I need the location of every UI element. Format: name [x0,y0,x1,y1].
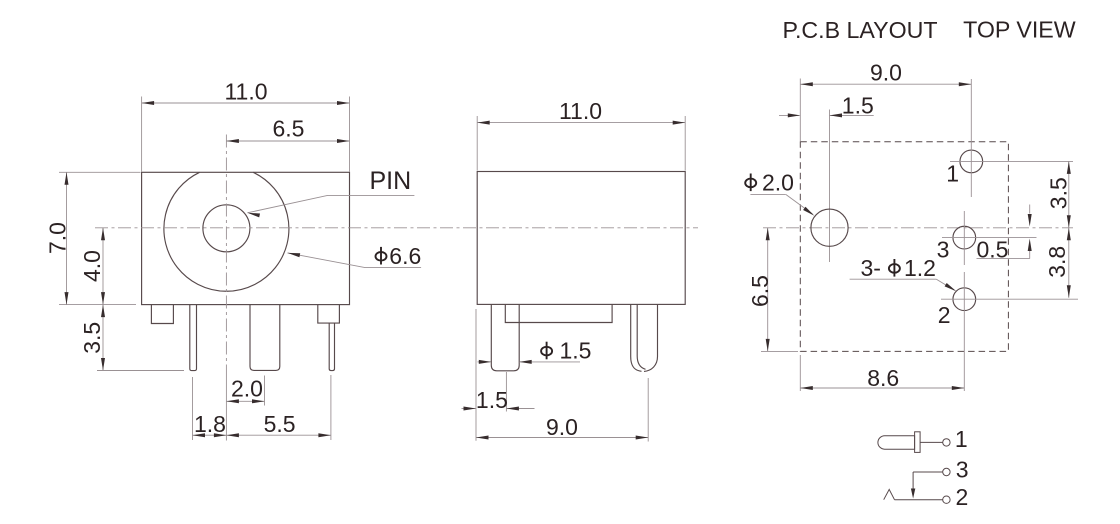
svg-text:1.5: 1.5 [842,93,874,119]
svg-text:3.5: 3.5 [1046,177,1072,209]
front dim 5.5 arrows [226,433,239,437]
svg-text:1.5: 1.5 [476,387,508,413]
pcb board dashed outline [800,142,1008,352]
pcb dim 3.5 arrows [1067,161,1071,174]
side view rear pin outer [631,304,642,371]
pcb dim 9.0 line [800,83,971,85]
front view left mounting tab [151,305,173,324]
pcb dim 3.8 arrows [1067,228,1071,241]
pcb pin1 hole [960,150,983,173]
front view body outline [142,172,350,304]
front view vertical centerline [225,135,227,378]
svg-text:7.0: 7.0 [44,222,70,254]
front dim 1.8 arrows [193,433,206,437]
svg-text:2.0: 2.0 [231,376,263,402]
pcb pin1 crosshair [950,160,1073,162]
svg-text:3.8: 3.8 [1044,246,1070,278]
svg-text:1.2: 1.2 [904,255,936,281]
pcb dim 6.5 line [767,228,769,352]
front dim 2.0 arrows [226,399,239,403]
pcb phi2.0 label symbol [745,179,756,188]
svg-text:2: 2 [938,302,951,328]
schematic wire pin1 [920,441,943,443]
front dim 1.8 5.5 line [193,434,331,436]
svg-text:6.5: 6.5 [747,275,773,307]
pcb dim 9.0 extension line [799,79,801,142]
side view base step [505,304,612,322]
svg-text:2.0: 2.0 [762,169,794,195]
front view center pin circle [203,205,250,252]
pcb hole phi2.0 circle [811,209,848,246]
front view left thin pin [190,305,197,371]
svg-text:P.C.B LAYOUT: P.C.B LAYOUT [783,17,938,43]
pcb pin3 crosshair [942,237,1037,239]
front view right thin pin [329,323,334,371]
svg-text:6.6: 6.6 [389,243,421,269]
side dim 9.0 extension line [647,378,649,442]
schematic terminal circle 3 [943,468,950,475]
side view front pin phi1.5 [491,304,519,370]
front dim 3.5 line [102,305,104,371]
schematic terminal circle 1 [943,439,950,446]
front dim 7.0 extension lines [59,171,141,173]
svg-text:5.5: 5.5 [264,411,296,437]
front view right mounting tab [318,305,340,324]
svg-text:1: 1 [946,161,959,187]
pcb dim 1.5 line and arrows [779,114,800,116]
pcb dim 9.0 arrows [800,82,813,86]
pcb pin2 crosshair [941,298,1078,300]
front dim 11.0 arrows [142,101,155,105]
svg-text:3: 3 [937,237,950,263]
front dim 3.5 bottom extension line [97,370,184,372]
front dim 7.0 line [66,172,68,304]
front dim 11.0 extension lines [141,97,143,172]
pcb pin3 hole [953,226,976,249]
side phi1.5 arrows and leader [478,361,491,363]
front dim 1.8 5.5 extension lines [192,377,194,440]
svg-text:9.0: 9.0 [870,60,902,86]
pcb dim 8.6 arrows [800,386,813,390]
pcb dim 3.5 3.8 line [1068,161,1070,297]
schematic wire pin2 with spring contact [895,499,943,501]
side dim 11.0 extension lines [476,116,478,171]
svg-text:3: 3 [956,456,969,482]
svg-text:1.5: 1.5 [560,338,592,364]
front dim 2.0 extension lines [225,377,227,441]
svg-text:TOP VIEW: TOP VIEW [963,17,1076,43]
pcb dim 6.5 bottom extension line [761,350,798,352]
side dim 1.5 line and arrows [462,408,476,410]
svg-text:PIN: PIN [370,167,412,195]
svg-text:3-: 3- [861,255,881,281]
side dim 1.5 extension lines [475,309,477,441]
pcb pin2 hole [953,288,976,311]
svg-text:11.0: 11.0 [559,98,602,124]
schematic wire pin3 [913,471,943,473]
side view body outline [477,172,685,305]
pcb phi2.0 leader [750,193,785,195]
phi6.6 leader line [288,253,422,268]
svg-text:1: 1 [955,426,968,452]
pcb dim 8.6 line [800,387,964,389]
front dim 4.0 line [102,228,104,305]
pcb dim 6.5 arrows [766,228,770,241]
svg-text:9.0: 9.0 [546,414,578,440]
pcb dim 8.6 extension line [799,355,801,391]
svg-text:8.6: 8.6 [867,365,899,391]
side dim 9.0 arrows [476,436,489,440]
front view barrel circle phi6.6 [164,172,289,291]
pcb hole vertical extension line [829,110,831,263]
front view middle pin [250,305,280,371]
schematic terminal circle 2 [943,496,950,503]
pcb 3-phi1.2 label symbol [889,264,900,273]
side dim 11.0 line [477,122,685,124]
svg-text:11.0: 11.0 [224,79,267,105]
svg-text:0.5: 0.5 [977,237,1009,263]
PIN leader line [247,195,414,212]
pcb horizontal centerline [763,227,1073,229]
side view rear pin inner fold line [637,304,645,369]
front dim 3.5 arrows [101,305,105,318]
side dim 9.0 line [476,437,648,439]
phi6.6 label symbol [376,252,387,261]
front dim 6.5 line [226,140,349,142]
svg-text:4.0: 4.0 [79,250,105,282]
svg-text:3.5: 3.5 [79,322,105,354]
svg-text:2: 2 [956,484,969,510]
schematic center pin symbol [878,436,915,450]
pcb dim 0.5 leader [977,258,1030,260]
front dim 6.5 arrows [226,139,239,143]
front dim 7.0 arrows [65,172,69,185]
side phi1.5 label symbol [541,347,552,356]
horizontal centerline through front and side views [95,227,698,229]
svg-text:1.8: 1.8 [194,411,226,437]
front dim 4.0 arrows [101,228,105,241]
pcb dim 0.5 arrows [1029,205,1031,214]
pcb 3-phi1.2 leader [850,278,937,280]
front dim 11.0 line [142,102,350,104]
side dim 11.0 arrows [477,121,490,125]
svg-text:6.5: 6.5 [273,116,305,142]
front dim 2.0 line [226,400,264,402]
